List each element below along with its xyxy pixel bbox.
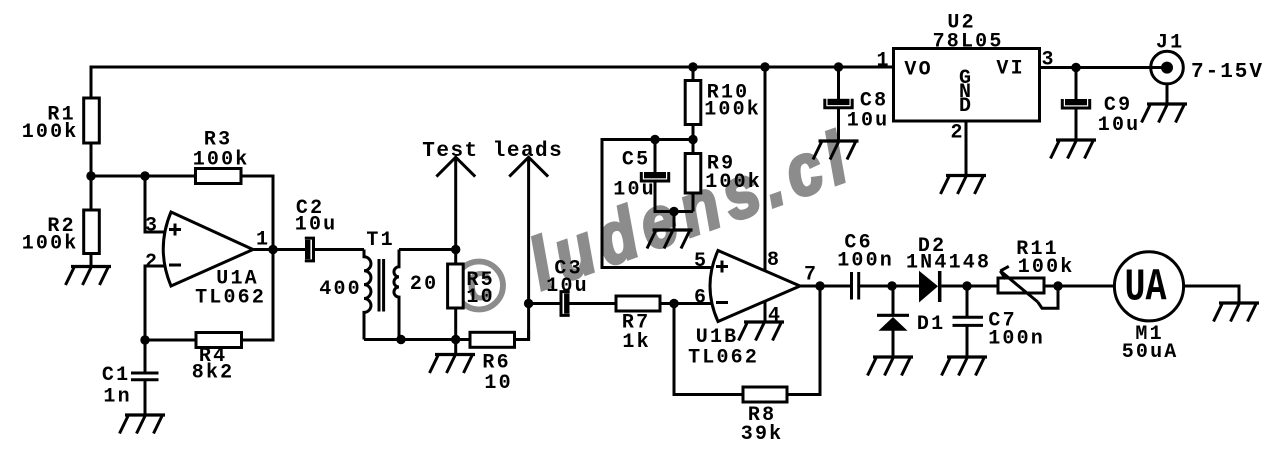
wire D1 top lead — [892, 286, 895, 314]
node T1 top / test lead — [451, 245, 460, 254]
wire R1 top lead — [90, 66, 93, 99]
wire C9 bottom lead — [1075, 108, 1078, 140]
wire C7 top lead — [966, 286, 969, 316]
ground below test lead node — [430, 355, 476, 374]
wire U1A output to C2 — [253, 248, 305, 251]
svg-text:T1: T1 — [366, 229, 394, 252]
wire C5 top junction to R9/R10 junction — [655, 138, 693, 141]
svg-text:100k: 100k — [704, 99, 761, 122]
node U1A output — [268, 245, 277, 254]
wire R1 bottom to node A — [90, 143, 93, 176]
wire R10 top lead — [692, 67, 695, 81]
svg-text:VI: VI — [996, 58, 1024, 81]
svg-text:3: 3 — [1041, 49, 1055, 72]
wire T1 bottom rail to R6 — [364, 338, 470, 341]
svg-text:100k: 100k — [193, 149, 250, 172]
svg-text:3: 3 — [145, 215, 159, 238]
svg-text:Test leads: Test leads — [422, 140, 563, 163]
svg-text:1N4148: 1N4148 — [906, 252, 991, 275]
node pin2/R4/C1 junction — [140, 335, 149, 344]
ground below J1 — [1142, 104, 1188, 123]
svg-text:50uA: 50uA — [1122, 341, 1179, 364]
svg-text:1k: 1k — [622, 331, 650, 354]
ground below U2 — [941, 176, 987, 195]
svg-text:100k: 100k — [705, 171, 762, 194]
ground below C5 — [647, 230, 693, 249]
node rail/R10 — [688, 62, 697, 71]
left test lead arrow — [436, 157, 475, 176]
svg-text:1n: 1n — [103, 386, 131, 409]
svg-text:100k: 100k — [22, 233, 79, 256]
watermark ludens.cl text — [519, 116, 863, 305]
wire U1B pin 8 from supply rail — [764, 67, 767, 271]
resistor R3 — [193, 129, 250, 184]
node pin3 branch junction — [140, 171, 149, 180]
ground below C9 — [1051, 140, 1097, 159]
svg-text:100n: 100n — [837, 250, 894, 273]
wire R8 right lead to output — [787, 286, 820, 395]
ground below C1 — [120, 415, 166, 434]
resistor R8 — [741, 387, 787, 446]
transformer T1 — [319, 229, 438, 340]
wire R10 bottom lead — [692, 125, 695, 140]
wire R5 top lead — [454, 250, 457, 265]
watermark copyright symbol — [455, 262, 503, 315]
resistor R9 — [685, 153, 762, 195]
resistor R4 — [192, 333, 242, 385]
node U1B output — [815, 281, 824, 290]
svg-text:8k2: 8k2 — [192, 362, 235, 385]
capacitor C3 — [546, 258, 589, 317]
svg-text:39k: 39k — [741, 423, 784, 446]
svg-text:10u: 10u — [847, 110, 890, 133]
wire R7 to U1B pin 6 — [660, 302, 712, 305]
svg-text:10: 10 — [466, 286, 494, 309]
diode D1 — [877, 313, 945, 336]
wire C7 bottom lead — [966, 326, 969, 357]
wire J1 ground stem — [1166, 84, 1169, 104]
svg-text:20: 20 — [410, 273, 438, 296]
svg-text:10u: 10u — [546, 275, 589, 298]
svg-text:78L05: 78L05 — [933, 31, 1004, 54]
svg-text:TL062: TL062 — [195, 287, 266, 310]
wire C1 bottom lead — [144, 380, 147, 415]
node C7 — [962, 281, 971, 290]
resistor R5 — [448, 264, 495, 309]
ground below C8 — [813, 141, 859, 160]
wire to U1A pin 3 — [145, 176, 168, 232]
capacitor C8 — [825, 90, 890, 133]
wire C6 to D2 — [860, 285, 919, 288]
diode D2 — [906, 235, 991, 303]
wire C3 tap to cap — [529, 302, 560, 305]
resistor R7 — [616, 296, 660, 354]
wire R2 bottom lead — [90, 254, 93, 267]
ground right of meter — [1214, 303, 1260, 322]
node C3 tap — [524, 299, 533, 308]
svg-text:6: 6 — [694, 287, 708, 310]
svg-text:100k: 100k — [22, 121, 79, 144]
capacitor C7 — [953, 310, 1046, 351]
wire T1 secondary top to test lead node — [399, 248, 456, 251]
svg-text:100k: 100k — [1018, 256, 1075, 279]
wire R11 to meter — [1044, 285, 1115, 288]
op-amp U1B — [688, 251, 800, 370]
svg-text:1: 1 — [256, 229, 270, 252]
wire U1A pin 2 branch — [145, 266, 196, 340]
resistor R1 — [22, 98, 100, 144]
wire U2 pin3 to J1 — [1040, 66, 1163, 69]
wire U1B pin 4 stub — [764, 301, 767, 322]
meter M1 — [1114, 252, 1183, 364]
wire C9 top lead — [1075, 68, 1078, 100]
svg-text:TL062: TL062 — [688, 347, 759, 370]
wire top supply rail — [91, 66, 894, 69]
right test lead arrow — [509, 157, 548, 176]
svg-text:2: 2 — [950, 122, 964, 145]
svg-text:10: 10 — [484, 372, 512, 395]
wire R2 top lead — [90, 176, 93, 210]
svg-text:100n: 100n — [988, 328, 1045, 351]
wire C5 bottom lead — [655, 181, 693, 212]
svg-text:2: 2 — [145, 251, 159, 274]
node R1/R2 junction — [86, 171, 95, 180]
op-amp U1A — [163, 212, 266, 310]
wire D2 to R11 — [942, 285, 999, 288]
svg-text:C5: C5 — [622, 149, 650, 172]
wire R9 bottom lead — [692, 193, 695, 212]
node R9/R10 junction — [688, 135, 697, 144]
svg-text:400: 400 — [319, 278, 362, 301]
node R5 bottom / ground — [451, 335, 460, 344]
wire C5 ground stem — [673, 212, 676, 231]
wire R6 right lead to test lead column — [515, 330, 529, 340]
wire test lead ground stem — [454, 340, 457, 355]
wire C3 to R7 — [570, 302, 617, 305]
ground below D1 — [868, 357, 914, 376]
svg-text:5: 5 — [694, 250, 708, 273]
svg-text:VO: VO — [904, 59, 932, 82]
wire U1B output to C6 — [800, 285, 850, 288]
resistor R10 — [685, 81, 761, 125]
svg-text:10u: 10u — [1098, 114, 1141, 137]
svg-text:8: 8 — [767, 249, 781, 272]
resistor R6 — [470, 332, 515, 395]
wire C5 top lead — [654, 140, 657, 173]
wire C2 to T1 primary — [315, 248, 365, 251]
svg-text:10u: 10u — [613, 179, 656, 202]
wire C8 bottom lead — [837, 108, 840, 141]
resistor R2 — [22, 210, 100, 256]
node rail/pin8 — [760, 62, 769, 71]
wire R9 top lead — [692, 140, 695, 154]
capacitor C6 — [837, 232, 894, 300]
ground below U1B pin 4 — [739, 322, 785, 341]
capacitor C2 — [295, 197, 338, 262]
wire right test lead vertical — [527, 157, 530, 340]
wire U2 pin 2 lead — [965, 121, 968, 176]
node C5 top — [650, 135, 659, 144]
node C5 ground junction — [669, 207, 678, 216]
ground below C7 — [942, 357, 988, 376]
capacitor C9 — [1062, 94, 1140, 137]
capacitor C5 — [613, 149, 668, 202]
node rail/C9 — [1071, 63, 1080, 72]
wire R3 right lead and feedback vertical — [241, 176, 273, 340]
wire R5 bottom lead — [454, 308, 457, 340]
node rail/C8 — [834, 62, 843, 71]
wire D1 bottom lead — [892, 331, 895, 358]
wire C1 top lead — [144, 340, 147, 372]
svg-text:10u: 10u — [295, 214, 338, 237]
node R11 wiper — [1053, 281, 1062, 290]
wire C8 top lead — [837, 67, 840, 99]
node R7/R8/pin6 — [669, 299, 678, 308]
svg-text:C1: C1 — [102, 364, 130, 387]
capacitor C1 — [102, 364, 159, 409]
wire left test lead vertical — [454, 157, 457, 250]
svg-text:UA: UA — [1125, 263, 1167, 314]
connector J1 — [1151, 32, 1264, 85]
wire meter to ground — [1184, 286, 1240, 303]
svg-text:7-15V: 7-15V — [1191, 61, 1264, 84]
ground below R2 — [66, 267, 112, 286]
node T1 secondary bottom — [396, 335, 405, 344]
svg-text:J1: J1 — [1156, 32, 1184, 55]
potentiometer R11 — [998, 238, 1075, 308]
wire U1B pin 5 loop — [602, 140, 711, 268]
voltage regulator U2 — [894, 12, 1040, 122]
svg-text:D1: D1 — [917, 313, 945, 336]
node D1 — [887, 281, 896, 290]
wire R8 feedback branch — [674, 304, 743, 395]
svg-text:D: D — [959, 95, 973, 118]
svg-text:7: 7 — [804, 264, 818, 287]
svg-text:1: 1 — [876, 50, 890, 73]
wire node row R1/R2 to R3 — [91, 175, 196, 178]
